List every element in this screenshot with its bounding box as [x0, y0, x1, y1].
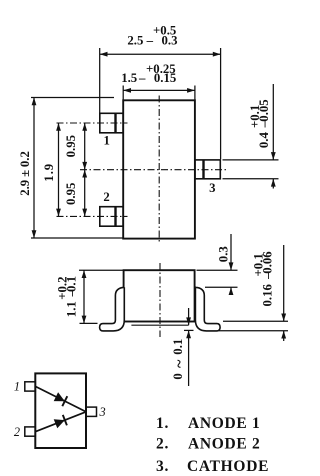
schematic symbol outline box	[35, 373, 86, 448]
dimension 0.95 lower lead pitch: line and arrows	[82, 170, 87, 217]
svg-text:1.5: 1.5	[121, 71, 137, 85]
svg-text:3: 3	[209, 181, 215, 195]
svg-text:+0.25: +0.25	[146, 62, 176, 76]
svg-text:0: 0	[171, 373, 185, 379]
svg-text:1: 1	[103, 133, 109, 147]
top view package body	[123, 100, 195, 238]
schematic pin 1 italic label	[14, 380, 20, 394]
side view left gull-wing lead	[100, 287, 125, 331]
svg-text:1.1: 1.1	[65, 301, 79, 317]
svg-text:±: ±	[18, 170, 32, 177]
svg-text:+0.1: +0.1	[248, 105, 262, 128]
svg-text:0.95: 0.95	[64, 183, 78, 205]
schematic pin 3 stub	[86, 407, 97, 416]
dimension 2.5 +0.5/-0.3 overall width: lines and arrows	[100, 48, 221, 159]
svg-text:1: 1	[14, 380, 20, 394]
dimension 1.1 +0.2/-0.1 package height: lines and arrows	[79, 270, 124, 323]
top view horizontal centerline (pin 3 axis)	[80, 169, 227, 171]
dimension 0.95 upper lead pitch: line and arrows	[82, 123, 87, 170]
svg-text:0.4: 0.4	[257, 132, 271, 149]
diode D2 (anode pin 2, cathode to node)	[54, 415, 67, 428]
pin 3 number label	[209, 181, 215, 195]
svg-text:2: 2	[14, 425, 20, 439]
pin 1 centerline	[57, 122, 128, 124]
svg-text:0.95: 0.95	[64, 135, 78, 157]
legend line 2: ANODE 2	[156, 435, 261, 452]
dimension 0.16 value text (rotated)	[252, 251, 275, 307]
dimension 0~0.1 value text (rotated)	[171, 339, 188, 380]
seating plane line	[131, 324, 188, 326]
svg-text:.: .	[42, 171, 56, 174]
schematic pin 3 italic label	[99, 405, 106, 419]
svg-text:2: 2	[103, 190, 109, 204]
svg-text:9: 9	[42, 164, 56, 170]
dimension 2.5 value text	[127, 24, 177, 48]
dimension 1.5 +0.25/-0.15 body width: lines and arrows	[123, 86, 195, 101]
pin 2 number label	[103, 190, 109, 204]
svg-text:–: –	[138, 71, 146, 85]
svg-text:ANODE 1: ANODE 1	[188, 415, 261, 432]
svg-text:+0.1: +0.1	[252, 253, 266, 276]
pin 3 lead (top view)	[195, 160, 220, 179]
dimension 0.3 value text (rotated)	[217, 246, 231, 262]
dimension 1.5 value text	[121, 62, 176, 85]
svg-text:2.9: 2.9	[18, 180, 32, 196]
wire from pin 1 to common cathode node	[36, 387, 86, 412]
diode D1 (anode pin 1, cathode to node)	[54, 392, 68, 406]
svg-text:1: 1	[42, 175, 56, 181]
side view vertical centerline	[159, 263, 161, 337]
svg-text:~: ~	[171, 359, 188, 368]
dimension 2.9 value text (rotated)	[18, 151, 32, 196]
svg-text:ANODE 2: ANODE 2	[188, 435, 261, 452]
dimension 0.16 +0.1/-0.06 lead thickness: lines and arrows	[219, 245, 288, 341]
dimension 0.95 upper value text (rotated)	[64, 135, 78, 157]
side view package body	[124, 270, 195, 321]
svg-text:3.: 3.	[156, 458, 169, 475]
svg-text:3: 3	[99, 405, 106, 419]
svg-text:0.1: 0.1	[171, 339, 185, 355]
schematic pin 1 stub	[25, 382, 36, 391]
svg-text:+0.2: +0.2	[56, 277, 70, 300]
svg-text:1.: 1.	[156, 415, 169, 432]
svg-text:2.5: 2.5	[127, 33, 143, 47]
svg-text:CATHODE: CATHODE	[187, 458, 269, 475]
legend line 1: ANODE 1	[156, 415, 261, 432]
svg-text:0.3: 0.3	[217, 246, 231, 262]
legend line 3: CATHODE	[156, 458, 269, 475]
dimension 1.9 value text (rotated)	[42, 164, 56, 182]
svg-text:2.: 2.	[156, 435, 169, 452]
pin 2 centerline	[57, 215, 128, 217]
pin 1 number label	[103, 133, 109, 147]
schematic pin 2 stub	[25, 427, 36, 436]
side view right gull-wing lead (pin 3)	[195, 287, 220, 331]
svg-text:0.16: 0.16	[261, 284, 275, 307]
dimension 0.95 lower value text (rotated)	[64, 183, 78, 205]
dimension 0~0.1 standoff: lines and arrows	[184, 308, 194, 386]
pin 2 lead (top view)	[100, 207, 123, 227]
svg-text:+0.5: +0.5	[153, 24, 176, 38]
schematic pin 2 italic label	[14, 425, 20, 439]
svg-text:0.2: 0.2	[18, 151, 32, 167]
wire from pin 2 to common cathode node	[36, 412, 86, 432]
dimension 0.4 value text (rotated)	[248, 99, 271, 148]
dimension 0.4 +0.1/-0.05 lead width: lines and arrows	[223, 84, 279, 189]
dimension 1.9 lead span: line and arrows	[56, 123, 61, 216]
dimension 0.3 lead shoulder: lines and arrows	[197, 234, 238, 295]
top view vertical centerline	[158, 96, 160, 245]
pin 1 lead (top view)	[100, 113, 123, 133]
dimension 2.9 plus-minus 0.2 body height: lines and arrows	[31, 98, 123, 239]
dimension 1.1 value text (rotated)	[56, 276, 79, 317]
